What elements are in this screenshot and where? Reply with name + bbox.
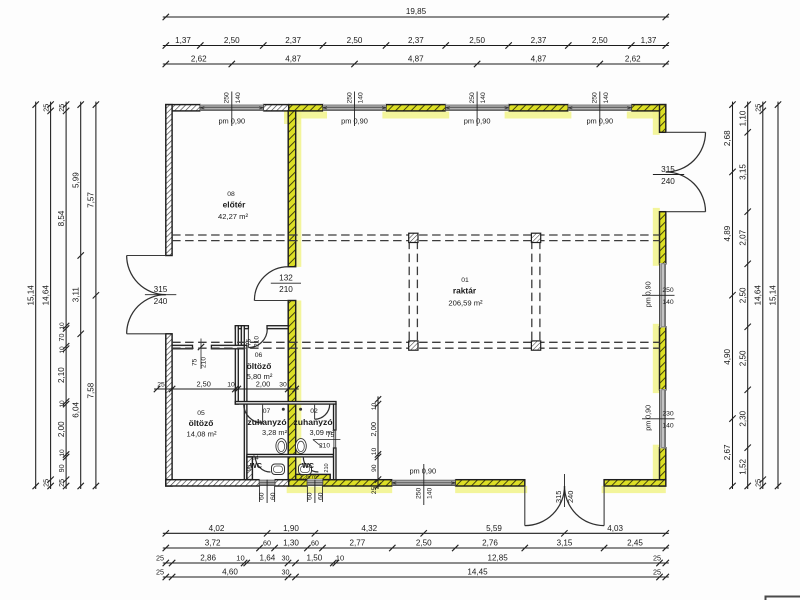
svg-text:90: 90 [247, 465, 253, 471]
bottom wall yellow segment 1 [289, 480, 308, 486]
svg-text:75: 75 [192, 358, 199, 366]
svg-text:4,89: 4,89 [723, 225, 732, 241]
svg-text:250: 250 [224, 92, 231, 104]
bottom wall yellow segment east [604, 480, 666, 486]
svg-text:4,87: 4,87 [531, 55, 547, 64]
svg-text:315: 315 [154, 285, 168, 294]
svg-text:raktár: raktár [453, 286, 477, 296]
dashed roof projection line pair upper [172, 234, 659, 236]
door raktar to shower 02 [315, 404, 330, 419]
svg-text:4,32: 4,32 [361, 524, 377, 533]
svg-text:210: 210 [324, 463, 330, 472]
bottom dimension row centers [163, 532, 669, 534]
right dimension row openings [747, 102, 749, 489]
svg-text:14,45: 14,45 [467, 568, 488, 577]
svg-text:pm 0,90: pm 0,90 [464, 117, 491, 126]
bottom wall hatched segment west [166, 480, 260, 486]
svg-text:140: 140 [603, 92, 610, 104]
svg-text:4,60: 4,60 [222, 568, 238, 577]
window 250/140 top wall #4 [568, 104, 631, 112]
svg-text:4,03: 4,03 [607, 524, 623, 533]
right wall yellow segment top corner [660, 105, 666, 133]
dashed column axis east [531, 241, 533, 343]
window 230/140 right wall [660, 389, 666, 448]
door 75/210 in room 05 top wall [200, 339, 202, 370]
svg-text:12,85: 12,85 [488, 554, 509, 563]
window 250/140 bottom wall [392, 479, 455, 487]
shower rooms top wall [235, 402, 336, 405]
svg-text:WC: WC [302, 461, 314, 470]
wc top wall [247, 454, 334, 457]
window 250/140 top wall #3 [446, 104, 509, 112]
svg-text:2,00: 2,00 [369, 422, 378, 436]
toilet wc west [272, 464, 285, 475]
right dimension row axis centers [732, 102, 734, 489]
svg-text:10: 10 [59, 346, 66, 354]
svg-text:zuhanyzó: zuhanyzó [293, 417, 332, 427]
svg-text:2,50: 2,50 [738, 350, 747, 366]
svg-text:zuhanyzó: zuhanyzó [247, 417, 286, 427]
svg-text:30: 30 [279, 382, 287, 389]
svg-text:1,52: 1,52 [738, 458, 747, 474]
svg-text:01: 01 [461, 277, 469, 284]
left wall lower hatched segment [166, 334, 172, 486]
svg-text:3,15: 3,15 [557, 539, 573, 548]
column SW [409, 341, 418, 350]
svg-text:7,57: 7,57 [87, 192, 96, 208]
right dimension overall 15,14 [777, 102, 779, 489]
svg-text:14,64: 14,64 [753, 285, 762, 306]
door 315/240 right wall (double leaf, opens out) [666, 131, 706, 133]
svg-text:1,30: 1,30 [283, 539, 299, 548]
svg-text:70: 70 [57, 334, 66, 342]
svg-text:pm 0,90: pm 0,90 [586, 117, 613, 126]
svg-text:210: 210 [279, 285, 293, 294]
column NE [531, 233, 540, 242]
door label 315/240 bottom [564, 474, 566, 507]
highlight glow along top wall yellow segments [284, 111, 327, 119]
door label 132/210 [271, 282, 301, 284]
left dimension row 7,57 / 7,58 [95, 102, 97, 489]
svg-text:08: 08 [227, 191, 235, 198]
svg-text:2,50: 2,50 [224, 36, 240, 45]
svg-text:1,37: 1,37 [175, 36, 191, 45]
svg-text:30: 30 [282, 554, 290, 563]
svg-text:240: 240 [566, 491, 575, 503]
top wall yellow segment east [631, 105, 666, 111]
svg-text:25: 25 [753, 104, 762, 112]
window 250/140 top wall #2 [323, 104, 386, 112]
svg-text:07: 07 [263, 408, 271, 415]
svg-text:140: 140 [358, 92, 365, 104]
svg-text:25: 25 [41, 104, 50, 112]
door room 06 to shower 07 [244, 404, 263, 423]
svg-text:2,76: 2,76 [482, 539, 498, 548]
svg-text:1,37: 1,37 [641, 36, 657, 45]
shower head marks [282, 408, 285, 411]
svg-text:240: 240 [154, 297, 168, 306]
interior vertical dimension at wc [377, 396, 379, 489]
room 02 east wall lower piece [334, 448, 337, 480]
svg-text:6,04: 6,04 [72, 402, 81, 418]
svg-text:3,72: 3,72 [205, 539, 221, 548]
svg-text:4,02: 4,02 [209, 524, 225, 533]
svg-text:2,10: 2,10 [57, 367, 66, 383]
svg-text:2,50: 2,50 [197, 380, 211, 389]
window 60/60 bottom wall #1 [260, 479, 275, 487]
bottom wall yellow segment 3 [455, 480, 525, 486]
svg-text:140: 140 [662, 299, 674, 306]
room 05 top wall east piece [211, 345, 244, 349]
svg-text:1,35 m²: 1,35 m² [300, 475, 319, 481]
svg-text:2,50: 2,50 [347, 36, 363, 45]
svg-text:1,64: 1,64 [259, 554, 275, 563]
svg-text:15,14: 15,14 [769, 285, 778, 306]
svg-text:210: 210 [254, 336, 261, 347]
svg-text:60: 60 [307, 492, 314, 500]
window 60/60 bottom wall #2 [307, 479, 322, 487]
svg-text:öltöző: öltöző [189, 418, 214, 428]
top dimension row axes [163, 63, 669, 65]
partition wall lower yellow section [288, 301, 296, 480]
svg-text:42,27 m²: 42,27 m² [218, 212, 248, 221]
svg-text:25: 25 [371, 487, 378, 495]
svg-text:4,87: 4,87 [408, 55, 424, 64]
svg-text:04: 04 [252, 456, 258, 462]
left wall upper hatched segment [166, 105, 172, 256]
room 06 inner west wall second leaf [241, 326, 244, 346]
interior dimension row at changing rooms [154, 388, 299, 390]
svg-text:10: 10 [59, 322, 66, 330]
svg-text:02: 02 [310, 408, 318, 415]
svg-text:10: 10 [371, 403, 378, 411]
svg-text:10: 10 [336, 554, 344, 563]
door wc east [303, 457, 318, 472]
window 250/140 right wall [660, 263, 666, 327]
svg-text:3,11: 3,11 [72, 287, 81, 303]
right wall yellow segment bottom [660, 448, 666, 486]
svg-text:140: 140 [235, 92, 242, 104]
wall top of room 06 west piece [235, 326, 248, 329]
svg-text:315: 315 [661, 165, 675, 174]
top wall hatched segment west [166, 105, 201, 111]
wall top of room 06 east piece [267, 326, 288, 329]
svg-text:315: 315 [554, 491, 563, 503]
svg-text:30: 30 [282, 568, 290, 577]
dashed column axis west [408, 241, 410, 343]
svg-text:25: 25 [653, 568, 661, 577]
svg-text:132: 132 [279, 274, 293, 283]
window 250/140 top wall #1 [200, 104, 263, 112]
svg-text:3,09 m²: 3,09 m² [309, 428, 335, 437]
svg-text:250: 250 [346, 92, 353, 104]
door wc west [255, 457, 270, 472]
toilet wc east [299, 464, 312, 475]
svg-text:3,28 m²: 3,28 m² [262, 428, 288, 437]
highlight glow right of partition wall [296, 111, 302, 267]
top wall hatched segment 2 [263, 105, 288, 111]
svg-text:2,62: 2,62 [191, 55, 207, 64]
svg-text:öltöző: öltöző [247, 361, 272, 371]
svg-text:25: 25 [41, 479, 50, 487]
svg-text:250: 250 [469, 92, 476, 104]
svg-text:2,86: 2,86 [200, 554, 216, 563]
svg-text:210: 210 [319, 443, 330, 450]
svg-text:pm 0,90: pm 0,90 [644, 405, 653, 431]
right wall yellow segment 2 [660, 212, 666, 264]
svg-text:2,62: 2,62 [625, 55, 641, 64]
svg-text:2,67: 2,67 [723, 444, 732, 460]
title block corner bottom right [766, 597, 800, 600]
svg-text:1,10: 1,10 [738, 110, 747, 126]
svg-text:10: 10 [59, 400, 66, 408]
svg-text:210: 210 [201, 357, 208, 368]
svg-text:140: 140 [480, 92, 487, 104]
door 75/210 in room 06 top wall [248, 329, 267, 348]
bottom wall yellow segment 2 [323, 480, 393, 486]
svg-text:60: 60 [311, 539, 319, 548]
bottom dimension row openings [163, 547, 669, 549]
svg-text:206,59 m²: 206,59 m² [448, 299, 483, 308]
svg-text:230: 230 [662, 410, 674, 417]
svg-text:8,54: 8,54 [57, 210, 66, 226]
svg-text:90: 90 [57, 464, 66, 472]
svg-text:10: 10 [236, 554, 244, 563]
top dimension row windows [163, 45, 669, 47]
partition wall upper yellow section [288, 111, 296, 267]
door 132/210 partition wall [254, 300, 288, 302]
room 05 east wall [244, 345, 247, 479]
svg-text:25: 25 [156, 554, 164, 563]
svg-text:25: 25 [57, 479, 66, 487]
column SE [531, 341, 540, 350]
svg-text:250: 250 [592, 92, 599, 104]
bottom dimension row partitions [163, 562, 669, 564]
room 02 east wall upper piece [334, 404, 337, 430]
svg-text:2,00: 2,00 [256, 380, 270, 389]
svg-text:2,50: 2,50 [592, 36, 608, 45]
svg-text:pm 0,90: pm 0,90 [218, 117, 245, 126]
svg-text:pm 0,90: pm 0,90 [341, 117, 368, 126]
left dimension overall 15,14 [35, 102, 37, 489]
svg-text:250: 250 [415, 487, 422, 499]
svg-text:60: 60 [259, 492, 266, 500]
svg-text:pm 0,90: pm 0,90 [644, 281, 653, 307]
svg-text:2,50: 2,50 [416, 539, 432, 548]
svg-text:240: 240 [661, 177, 675, 186]
svg-text:2,37: 2,37 [408, 36, 424, 45]
svg-text:25: 25 [753, 479, 762, 487]
svg-text:2,68: 2,68 [723, 130, 732, 146]
right dimension row 14,64 [762, 102, 764, 489]
svg-text:7,58: 7,58 [87, 382, 96, 398]
svg-text:1,50: 1,50 [307, 554, 323, 563]
right wall yellow segment 3 [660, 327, 666, 390]
dashed roof projection line pair lower [172, 341, 659, 343]
left dimension row room heights [65, 102, 67, 489]
door label 315/240 left [145, 294, 176, 296]
door 75/210 room 02 east wall (closed leaf) [333, 430, 335, 449]
svg-text:14,64: 14,64 [41, 285, 50, 306]
svg-text:2,37: 2,37 [531, 36, 547, 45]
svg-text:10: 10 [227, 382, 235, 389]
door 315/240 left wall (double leaf, opens out) [127, 255, 166, 257]
bottom wall hatched segment 2 [275, 480, 289, 486]
svg-text:19,85: 19,85 [406, 7, 427, 16]
svg-text:5,59: 5,59 [486, 524, 502, 533]
svg-text:25: 25 [57, 104, 66, 112]
svg-text:1,90: 1,90 [283, 524, 299, 533]
left dimension row door 3,11 [80, 102, 82, 489]
partition wall yellow foot extension [296, 474, 331, 479]
svg-text:25: 25 [157, 382, 165, 389]
svg-text:4,87: 4,87 [285, 55, 301, 64]
top wall yellow segment at partition [289, 105, 323, 111]
door label 75/210 room 02 [313, 439, 341, 441]
svg-text:előtér: előtér [223, 200, 247, 210]
wc west hatched wall stub [247, 457, 253, 480]
door label 315/240 right [653, 174, 684, 176]
svg-text:2,37: 2,37 [285, 36, 301, 45]
svg-text:05: 05 [197, 410, 205, 417]
door 315/240 bottom wall (double leaf, opens out) [524, 486, 526, 526]
svg-text:2,30: 2,30 [738, 410, 747, 426]
svg-text:10: 10 [371, 448, 378, 456]
svg-text:5,99: 5,99 [72, 172, 81, 188]
svg-text:2,50: 2,50 [469, 36, 485, 45]
highlight glow at partition top junction [284, 111, 301, 124]
top wall yellow segment 4 [509, 105, 569, 111]
svg-text:25: 25 [156, 568, 164, 577]
svg-text:25: 25 [653, 554, 661, 563]
left dimension row 14,64 [50, 102, 52, 489]
svg-text:60: 60 [270, 492, 277, 500]
svg-text:pm 0,90: pm 0,90 [409, 467, 436, 476]
svg-text:140: 140 [427, 487, 434, 499]
sink room 07 [276, 439, 287, 454]
room 06 west wall [235, 326, 238, 404]
sink room 02 [296, 439, 307, 454]
svg-text:14,08 m²: 14,08 m² [187, 430, 217, 439]
svg-text:3,15: 3,15 [738, 164, 747, 180]
overall top dimension 19,85 [163, 16, 669, 18]
highlight glow below bottom wall [287, 486, 393, 493]
svg-text:60: 60 [318, 492, 325, 500]
svg-text:2,45: 2,45 [627, 539, 643, 548]
svg-text:06: 06 [255, 352, 263, 359]
bottom dimension row partition 4,60 [163, 576, 669, 578]
svg-text:2,07: 2,07 [738, 229, 747, 245]
room 05 top wall west piece [172, 345, 192, 349]
svg-text:15,14: 15,14 [27, 285, 36, 306]
svg-text:4,90: 4,90 [723, 349, 732, 365]
top wall yellow segment 3 [386, 105, 446, 111]
svg-text:2,50: 2,50 [738, 287, 747, 303]
column NW [409, 233, 418, 242]
svg-text:250: 250 [662, 287, 674, 294]
svg-text:2,77: 2,77 [350, 539, 366, 548]
highlight glow along right wall inside [653, 110, 660, 135]
svg-text:60: 60 [263, 539, 271, 548]
svg-text:2,00: 2,00 [57, 421, 66, 437]
svg-text:90: 90 [371, 464, 378, 472]
svg-text:10: 10 [59, 449, 66, 457]
svg-text:140: 140 [662, 422, 674, 429]
